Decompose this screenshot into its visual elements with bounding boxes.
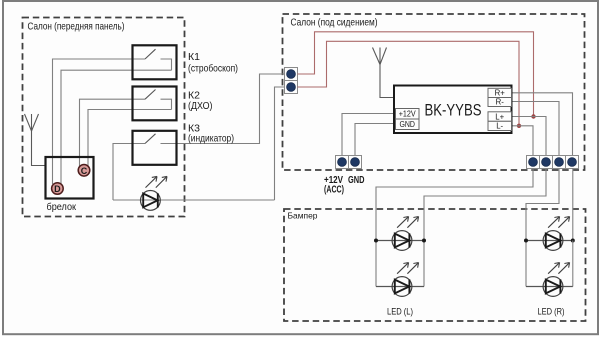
- wire K1 input to button D: [53, 59, 146, 184]
- LED (L) top row wire: [376, 240, 424, 242]
- receiver antenna: [373, 48, 395, 98]
- wire indicator LED row: [113, 199, 275, 201]
- red wire J1 pin1 to L+: [298, 32, 534, 117]
- svg-text:+12V: +12V: [399, 110, 417, 119]
- wire K2 input to button C: [80, 99, 146, 166]
- label K2: [188, 90, 213, 113]
- svg-text:(индикатор): (индикатор): [188, 133, 234, 145]
- button D: [52, 183, 64, 195]
- svg-text:GND: GND: [399, 120, 415, 129]
- LED (L) bottom row wire: [376, 286, 424, 288]
- wire R+ to output pin4: [512, 93, 573, 156]
- wire K2 output to button C: [88, 110, 172, 168]
- svg-text:D: D: [54, 184, 61, 194]
- module U1 BK-YYBS: [394, 86, 512, 134]
- wire J3 pin3 to LED(R) anode rail: [526, 169, 559, 241]
- pin L-: [488, 121, 512, 130]
- wire LED to connector pin2: [275, 87, 285, 200]
- wire K3 input from indicator LED: [113, 144, 145, 201]
- pin +12V: [396, 109, 420, 120]
- LED (L) right rail: [423, 241, 425, 287]
- svg-text:LED (R): LED (R): [538, 307, 565, 317]
- svg-text:LED (L): LED (L): [387, 307, 413, 317]
- svg-text:R+: R+: [495, 89, 506, 98]
- pin R-: [488, 98, 512, 107]
- LED (R) right rail: [572, 241, 574, 287]
- indicator LED: [141, 176, 168, 210]
- svg-text:GND: GND: [348, 175, 365, 186]
- LED R2: [543, 263, 570, 297]
- LED (R) bottom row wire: [526, 286, 573, 288]
- svg-text:L-: L-: [496, 122, 503, 131]
- wire +12V supply: [342, 114, 396, 156]
- svg-text:(стробоскоп): (стробоскоп): [188, 63, 238, 75]
- pin L+: [488, 112, 512, 122]
- switch K1: [133, 45, 177, 79]
- LED R1: [543, 217, 570, 251]
- switch K3: [133, 131, 177, 165]
- junction dots LED(R): [524, 239, 528, 243]
- LED L1: [392, 217, 419, 251]
- wire J3 pin1 to LED(L) anode rail: [376, 169, 533, 241]
- svg-text:BK-YYBS: BK-YYBS: [425, 101, 482, 120]
- wire K1 output to button D: [61, 70, 172, 184]
- svg-text:К1: К1: [188, 51, 200, 63]
- LED L2: [392, 263, 419, 297]
- label K3: [188, 123, 234, 145]
- connector J1 (radio side, 2-pin): [285, 68, 298, 94]
- junction dot on L-: [517, 124, 521, 128]
- svg-text:R-: R-: [496, 98, 505, 107]
- connector J2 power (2-pin): [336, 156, 362, 169]
- dashed enclosure: Салон (под сидением): [283, 14, 585, 170]
- wire GND supply: [355, 124, 396, 156]
- label +12V GND (ACC): [324, 175, 365, 196]
- label K1: [188, 51, 238, 75]
- wire L+ to output pin2: [512, 117, 547, 156]
- LED (L) left rail: [375, 241, 377, 287]
- pin R+: [488, 88, 512, 97]
- LED (R) left rail: [525, 241, 527, 287]
- wire J3 pin2 to LED(L) cathode rail: [424, 169, 546, 241]
- svg-text:C: C: [81, 166, 88, 176]
- LED (R) top row wire: [526, 240, 573, 242]
- switch K2: [133, 87, 177, 121]
- key fob box (брелок): [46, 157, 94, 213]
- red wire J1 pin2 to L-: [298, 41, 520, 126]
- svg-text:брелок: брелок: [47, 201, 77, 213]
- wire L- to output pin1: [512, 126, 534, 156]
- svg-text:Салон (передняя панель): Салон (передняя панель): [28, 21, 125, 33]
- junction dots LED(L): [374, 239, 378, 243]
- pin GND: [396, 119, 420, 130]
- svg-text:(ДХО): (ДХО): [188, 100, 213, 112]
- svg-text:L+: L+: [495, 112, 504, 121]
- svg-text:(ACC): (ACC): [324, 185, 344, 196]
- junction dot on L+: [531, 114, 535, 118]
- button C: [78, 165, 90, 177]
- wire K3 output to connector pin1: [161, 74, 285, 144]
- wire R- to output pin3: [512, 102, 560, 156]
- dashed enclosure: Салон (передняя панель): [23, 18, 185, 217]
- wire J3 pin4 to LED(R) cathode rail: [571, 169, 574, 241]
- svg-text:Салон (под сидением): Салон (под сидением): [291, 17, 378, 29]
- svg-text:Бампер: Бампер: [288, 211, 318, 221]
- antenna (key fob): [25, 114, 46, 166]
- connector J3 outputs (4-pin): [527, 156, 579, 169]
- dashed enclosure: Бампер: [284, 209, 586, 321]
